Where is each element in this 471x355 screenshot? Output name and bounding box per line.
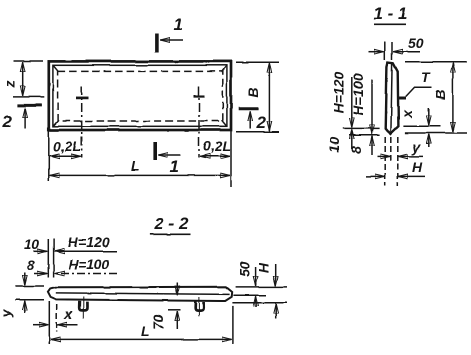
slab outer outline (plan)	[49, 61, 231, 130]
svg-text:0,2L: 0,2L	[203, 138, 231, 154]
svg-text:70: 70	[150, 314, 166, 330]
section 1-1 profile inner edge	[391, 64, 392, 133]
z dim: bottom extension	[13, 96, 44, 98]
bottom level extension (H=100)	[349, 134, 380, 136]
loop 1 axis	[82, 297, 84, 319]
profile right edge extension (dashed)	[397, 137, 399, 186]
50 dim: left arrow	[369, 51, 384, 53]
70 dim: loop bottom extension	[168, 309, 181, 311]
50 dim 2-2: down arrow	[255, 267, 257, 286]
loop 2 axis	[198, 297, 200, 316]
z dim: top extension	[13, 60, 43, 62]
right end: top extension	[236, 286, 287, 288]
loop tick B	[194, 95, 206, 98]
svg-text:8: 8	[27, 257, 35, 273]
svg-text:50: 50	[408, 35, 424, 51]
svg-text:T: T	[421, 69, 431, 85]
svg-text:B: B	[432, 89, 448, 99]
svg-text:1 - 1: 1 - 1	[373, 4, 407, 23]
svg-text:2: 2	[2, 112, 13, 131]
B dim 1-1: dim line	[452, 63, 454, 132]
x dim 2-2: dashed vertical	[56, 304, 58, 332]
corner chamfer BL	[54, 120, 59, 125]
right end: bottom extension	[232, 302, 287, 304]
50 dim: right extension tick	[391, 42, 393, 60]
title 2-2 underline	[150, 233, 190, 235]
section cut 1 bottom: arrow	[159, 154, 181, 156]
svg-text:y: y	[0, 308, 14, 318]
10 dim arrow	[351, 130, 353, 149]
H dim 2-2: down arrow	[275, 264, 277, 286]
section cut 1 top: arrow	[160, 39, 183, 41]
8 row: left arrow	[35, 273, 48, 275]
section cut 1 bottom: bar	[153, 142, 157, 160]
L dim line plan	[50, 174, 230, 176]
section cut 2 right: arrow	[249, 112, 251, 129]
section cut 2 right: bar	[238, 107, 258, 110]
corner chamfer TR	[222, 66, 227, 72]
H dim 1-1: left arrow	[366, 175, 385, 177]
svg-text:H: H	[256, 262, 272, 273]
svg-text:10: 10	[24, 236, 40, 252]
loop tick A	[76, 97, 89, 100]
svg-text:H=120: H=120	[68, 234, 110, 250]
10 row: left arrow	[34, 250, 48, 252]
end offset tick left	[47, 239, 49, 278]
y dim 1-1: right arrow	[398, 155, 423, 157]
svg-text:1: 1	[174, 15, 183, 34]
svg-text:L: L	[131, 158, 140, 174]
y dim 2-2: down arrow	[24, 273, 26, 285]
svg-text:y: y	[412, 139, 422, 155]
y dim 2-2: bottom extension	[15, 299, 44, 301]
70 dim: upper line with down arrow	[176, 283, 178, 296]
section cut 2 left: arrow	[24, 108, 26, 128]
x dim 1-1: down arrow	[428, 108, 430, 125]
y dim 2-2: up arrow	[24, 301, 26, 313]
B dim 1-1: bottom extension	[405, 132, 467, 134]
B dim plan: bottom extension	[236, 131, 279, 133]
svg-text:H=100: H=100	[68, 256, 110, 272]
corner chamfer TL	[54, 66, 59, 72]
svg-text:2 - 2: 2 - 2	[153, 214, 189, 233]
0,2L left dim line	[50, 155, 81, 157]
x dim 1-1: up arrow	[428, 134, 430, 147]
8 row: right arrow with H=100 underline (dash-dot)	[55, 273, 117, 275]
corner chamfer BR	[222, 120, 227, 125]
slab profile 2-2	[48, 287, 232, 301]
L dim 2-2: dim line	[51, 338, 232, 340]
svg-text:x: x	[64, 306, 74, 322]
B dim plan: dim line	[268, 63, 270, 130]
8 dim arrow	[371, 137, 373, 156]
H=120 arrow line	[351, 77, 353, 127]
hidden edge dashed rect (plan)	[58, 71, 223, 121]
profile left edge extension (dashed)	[384, 137, 386, 186]
loop axis line A (dash-dot)	[81, 86, 83, 158]
50 dim: right arrow	[393, 51, 420, 53]
section cut 2 left: bar	[18, 104, 42, 107]
svg-text:L: L	[141, 323, 150, 339]
svg-text:H=100: H=100	[350, 73, 366, 115]
z dim line	[22, 62, 24, 95]
y dim 2-2: top extension	[15, 285, 44, 287]
x dim 2-2: left arrow	[33, 324, 48, 326]
L dim 2-2: right extension vertical	[232, 306, 234, 344]
svg-text:0,2L: 0,2L	[53, 138, 81, 154]
svg-text:z: z	[2, 81, 18, 89]
x dim 2-2: right arrow	[58, 324, 78, 326]
70 dim: up arrow	[176, 311, 178, 329]
svg-text:50: 50	[237, 261, 253, 277]
svg-text:1: 1	[170, 157, 179, 176]
slab mid line 2-2	[56, 293, 229, 295]
profile centre extension (dashed)	[390, 137, 392, 163]
section 1-1 slab profile	[386, 63, 399, 134]
slab end extension vertical (solid)	[48, 301, 50, 344]
bottom level extension (H=120)	[343, 127, 380, 129]
B dim plan: top extension	[236, 61, 279, 63]
plan right lower extension line	[230, 131, 232, 187]
x dim 1-1: upper extension	[403, 125, 440, 127]
loop leader line	[406, 87, 432, 96]
H dim 1-1: right arrow	[398, 175, 425, 177]
H=100 arrow line	[371, 80, 373, 134]
B dim 1-1: top extension	[405, 61, 467, 63]
0,2L right dim line	[200, 155, 230, 157]
section cut 1 top: bar	[155, 34, 159, 53]
svg-text:B: B	[245, 87, 261, 97]
50 dim 2-2: up arrow	[255, 297, 257, 308]
title 1-1 underline	[374, 23, 406, 25]
lifting loop 1	[79, 301, 87, 311]
loop axis line B (dash-dot)	[198, 86, 200, 158]
svg-text:10: 10	[326, 137, 342, 153]
svg-text:H=120: H=120	[331, 71, 347, 113]
y dim 1-1: left arrow	[378, 155, 391, 157]
svg-text:2: 2	[256, 113, 267, 132]
H dim 2-2: up arrow	[275, 304, 277, 319]
svg-text:x: x	[399, 109, 415, 119]
plan left lower extension line	[48, 131, 50, 181]
svg-text:H: H	[412, 159, 423, 175]
slab inner edge (plan)	[53, 65, 227, 126]
end offset tick right	[53, 239, 55, 278]
lifting loop 2	[195, 301, 204, 310]
svg-text:8: 8	[348, 146, 364, 154]
10 row: right arrow with H=120 underline	[55, 250, 117, 252]
right end: middle extension	[233, 294, 266, 296]
50 dim: left extension tick	[384, 42, 386, 60]
loop mark on profile	[398, 97, 406, 100]
